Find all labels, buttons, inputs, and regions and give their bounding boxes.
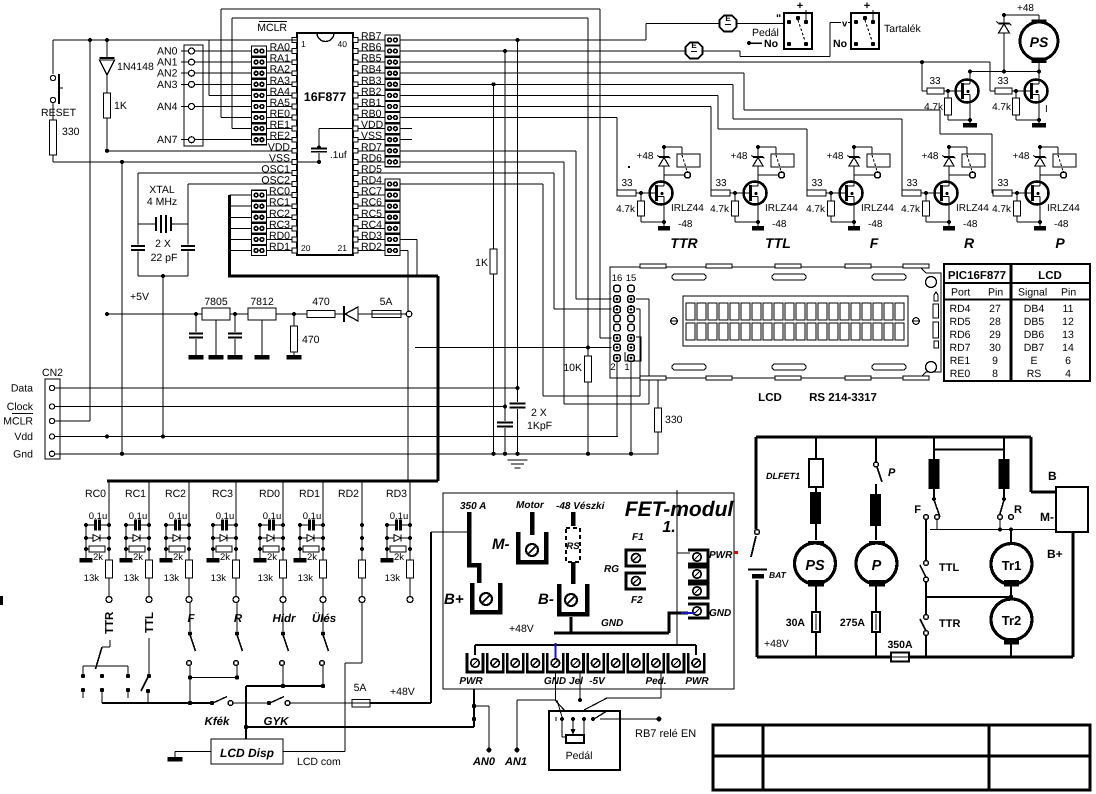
- wire VDD row to chip: [107, 150, 292, 152]
- wire column RD3: [408, 481, 412, 560]
- svg-text:Jel: Jel: [569, 676, 583, 687]
- input column RC1: label: [125, 488, 146, 500]
- svg-text:PWR: PWR: [459, 676, 483, 687]
- svg-text:TTL: TTL: [144, 612, 156, 633]
- svg-text:5A: 5A: [354, 682, 367, 694]
- svg-text:2k: 2k: [220, 552, 230, 563]
- pedal potentiometer: [556, 717, 595, 743]
- resistor 470 (shunt): [287, 314, 320, 360]
- svg-text:RC3: RC3: [212, 488, 233, 500]
- pin AN1: [157, 57, 252, 69]
- svg-text:16F877: 16F877: [304, 90, 346, 104]
- svg-text:Kfék: Kfék: [205, 716, 231, 728]
- svg-text:6: 6: [1065, 355, 1071, 367]
- svg-text:Data: Data: [11, 383, 33, 395]
- switch P (block): [874, 437, 896, 482]
- svg-text:470: 470: [302, 334, 320, 346]
- svg-text:TTR: TTR: [939, 618, 960, 630]
- resistor 2k (RD3): [387, 546, 406, 563]
- wire PWR entry from LCD header area: [676, 490, 678, 553]
- diode (RC0): [86, 535, 109, 542]
- svg-text:MCLR: MCLR: [257, 22, 287, 34]
- svg-text:P: P: [888, 467, 896, 479]
- svg-text:IRLZ44: IRLZ44: [765, 203, 798, 214]
- LCD header row 6 pins: [614, 335, 635, 342]
- svg-text:RD1: RD1: [269, 241, 290, 253]
- wire TTL to Tr junction: [926, 595, 1013, 599]
- input column RD3: label: [386, 488, 407, 500]
- svg-text:DLFET1: DLFET1: [766, 471, 800, 481]
- svg-text:RD0: RD0: [259, 488, 280, 500]
- motor P (block): [856, 541, 897, 611]
- resistor R2 1K (MCLR pull): [104, 93, 127, 153]
- regulator 7805: [202, 296, 230, 320]
- svg-text:P: P: [1055, 235, 1065, 251]
- svg-text:+48: +48: [731, 151, 748, 162]
- resistor 330 (reset): [50, 120, 80, 162]
- resistor 2k (RC3): [213, 546, 232, 563]
- resistor 13k (RD0): [258, 560, 287, 597]
- diode (RC3): [213, 535, 236, 542]
- svg-text:0.1u: 0.1u: [129, 511, 148, 522]
- wire GND terminal to pedal: [556, 672, 563, 717]
- svg-text:TTR: TTR: [670, 235, 698, 251]
- ballast resistor (R): [999, 437, 1010, 497]
- wire RE0 route (top jog): [221, 9, 600, 118]
- resistor 2k (RD1): [300, 546, 319, 563]
- capacitor (7805 in): [189, 314, 204, 360]
- pin AN2: [157, 68, 252, 80]
- wire Clock row: [55, 406, 505, 408]
- junction box B / M- / B+: [1031, 437, 1088, 561]
- switch F (block): [914, 497, 940, 519]
- svg-text:13k: 13k: [298, 573, 314, 584]
- svg-text:33: 33: [621, 178, 633, 189]
- svg-text:IRLZ44: IRLZ44: [861, 203, 894, 214]
- connector AN0-AN7 header: [184, 45, 203, 146]
- svg-text:28: 28: [989, 316, 1001, 328]
- svg-text:PWR: PWR: [709, 550, 733, 561]
- wire RB2 to F cell gate: [400, 95, 807, 193]
- svg-text:AN7: AN7: [157, 134, 178, 146]
- LCD mounting holes: [926, 277, 937, 373]
- svg-text:LCD com: LCD com: [297, 756, 341, 768]
- switch F: [187, 602, 196, 679]
- svg-text:2: 2: [610, 362, 615, 373]
- svg-text:E: E: [1030, 355, 1037, 367]
- resistor 33 (P gate): [993, 178, 1026, 196]
- svg-text:33: 33: [997, 76, 1009, 87]
- svg-text:IRLZ44: IRLZ44: [671, 203, 704, 214]
- FET module box: [443, 493, 734, 689]
- LCD bezel screws: [671, 318, 920, 325]
- svg-text:Pin: Pin: [988, 287, 1003, 299]
- svg-text:Tr1: Tr1: [1002, 558, 1022, 573]
- MOSFET Q PS driver at x=1036: [1025, 80, 1048, 103]
- wire 48V to FET module: [370, 532, 469, 703]
- svg-text:+: +: [797, 0, 803, 12]
- diode D (TTL flyback): [752, 145, 765, 182]
- ground (RC2): [160, 523, 173, 563]
- svg-text:AN3: AN3: [157, 79, 178, 91]
- wire LCD pin1 to Gnd: [630, 362, 632, 454]
- svg-text:33: 33: [715, 178, 727, 189]
- svg-text:RE0: RE0: [950, 368, 971, 380]
- resistor 13k (RD1): [298, 560, 327, 597]
- svg-text:16: 16: [612, 273, 623, 284]
- MOSFET Q R IRLZ44: [935, 182, 990, 215]
- relay K2 Tartalek: [833, 0, 922, 50]
- pin CN2 MCLR: [3, 414, 54, 428]
- resistor 33 (TTL gate): [711, 178, 744, 196]
- wire RB0 to TTR cell gate: [400, 118, 617, 193]
- relay driver cell R: +48 label: [922, 151, 939, 162]
- wire PWR internal rail: [475, 553, 696, 655]
- resistor 4.7k (P gate pulldown): [992, 193, 1040, 222]
- svg-text:RC0: RC0: [85, 488, 106, 500]
- svg-text:4 MHz: 4 MHz: [147, 196, 177, 208]
- capacitor 0.1u (RD3): [387, 511, 410, 531]
- label TTR: [670, 235, 698, 251]
- switch TTL (block): [920, 519, 959, 597]
- resistor 13k (RC2): [164, 560, 193, 597]
- svg-text:5A: 5A: [380, 296, 393, 308]
- wire column RC3: [234, 481, 238, 560]
- diode D PS (flyback): [997, 13, 1012, 72]
- capacitor C2 22pF: [151, 224, 195, 276]
- fuse 350A: [887, 639, 913, 662]
- resistor 13k (RC1): [124, 560, 153, 597]
- svg-text:4.7k: 4.7k: [616, 204, 636, 215]
- svg-text:PWR: PWR: [685, 676, 709, 687]
- svg-text:No: No: [833, 38, 847, 50]
- svg-text:7805: 7805: [204, 296, 228, 308]
- encoder E2: [686, 41, 703, 58]
- diode (RD3): [387, 535, 410, 542]
- resistor 4.7k (PS driver pulldown at x=967): [924, 91, 970, 120]
- svg-text:275A: 275A: [840, 617, 866, 629]
- svg-text:M-: M-: [492, 536, 510, 553]
- relay driver cell F: +48 label: [827, 151, 844, 162]
- wire PWR riser (module to LCD Disp): [246, 689, 476, 727]
- pin AN3: [157, 79, 252, 91]
- ground (TTL source): [752, 205, 787, 231]
- diode D (F flyback): [848, 145, 861, 182]
- resistor 4.7k (TTR gate pulldown): [616, 193, 664, 222]
- wire RB7 to E1: [400, 24, 720, 43]
- terminal RG F2: [604, 564, 646, 606]
- svg-text:DB6: DB6: [1024, 329, 1045, 341]
- svg-text:I: I: [1045, 104, 1048, 115]
- ground (TTR source): [658, 205, 693, 231]
- resistor 13k (RC3): [211, 560, 240, 597]
- svg-text:RD1: RD1: [299, 488, 320, 500]
- terminal RD0: [280, 597, 286, 603]
- svg-text:RD6: RD6: [949, 329, 970, 341]
- svg-text:TTL: TTL: [939, 562, 959, 574]
- svg-text:R: R: [964, 235, 975, 251]
- svg-text:F: F: [914, 504, 921, 516]
- svg-text:MCLR: MCLR: [3, 416, 33, 428]
- svg-text:R: R: [234, 613, 243, 625]
- terminal RC3: [233, 597, 239, 603]
- svg-text:11: 11: [1063, 303, 1074, 315]
- switch Kfek: [205, 697, 269, 729]
- svg-text:RD2: RD2: [361, 241, 382, 253]
- wire RB3 to R cell gate: [400, 82, 902, 193]
- terminal RD2: [359, 597, 365, 603]
- svg-text:2k: 2k: [173, 552, 183, 563]
- stub VSS right: [400, 139, 412, 141]
- svg-text:470: 470: [312, 296, 330, 308]
- fuse 30A: [786, 612, 820, 657]
- terminal B- (module): [538, 584, 587, 614]
- svg-text:2 X: 2 X: [531, 407, 547, 419]
- resistor 33 (TTR gate): [617, 178, 650, 196]
- svg-text:LCD: LCD: [758, 392, 782, 404]
- svg-text:27: 27: [989, 303, 1001, 315]
- svg-text:RS: RS: [566, 541, 580, 552]
- svg-text:+48: +48: [922, 151, 939, 162]
- diode D (P flyback): [1034, 145, 1047, 182]
- label P: [1055, 235, 1065, 251]
- svg-text:R: R: [1014, 504, 1022, 516]
- pin AN0: [157, 46, 252, 58]
- svg-text:+48V: +48V: [390, 686, 415, 698]
- svg-text:21: 21: [338, 243, 348, 253]
- wire RD5 to LCD DB5: [385, 173, 612, 309]
- relay coil (R): [949, 147, 985, 178]
- svg-text:RESET: RESET: [41, 107, 77, 119]
- wire E1 to Pedal relay: [737, 13, 784, 25]
- resistor 33 (PS driver gate at x=1036): [995, 76, 1025, 94]
- svg-text:+48: +48: [827, 151, 844, 162]
- svg-text:+48: +48: [637, 151, 654, 162]
- svg-text:4: 4: [1065, 368, 1071, 380]
- wire AN1: [504, 700, 566, 768]
- LCD right strip pins: [933, 292, 939, 348]
- svg-text:0.1u: 0.1u: [216, 511, 235, 522]
- motor PS (powersteering): [1004, 3, 1058, 72]
- svg-text:IRLZ44: IRLZ44: [956, 203, 989, 214]
- wire column RD2: [360, 481, 364, 560]
- svg-text:Ülés: Ülés: [312, 612, 336, 625]
- svg-text:DB5: DB5: [1024, 316, 1045, 328]
- wire B+ drop: [1072, 532, 1075, 657]
- resistor 13k (RD2): [359, 560, 366, 597]
- label R: [964, 235, 975, 251]
- svg-text:13: 13: [1062, 329, 1074, 341]
- LCD display bezel: [683, 296, 908, 346]
- svg-text:RD4: RD4: [949, 303, 970, 315]
- svg-text:M-: M-: [1040, 510, 1054, 524]
- svg-text:Port: Port: [951, 287, 970, 299]
- capacitor (7812 in): [228, 314, 243, 360]
- resistor 2k (RC0): [86, 546, 105, 563]
- module right strip terminals: [688, 550, 733, 619]
- svg-text:RD3: RD3: [386, 488, 407, 500]
- svg-text:4.7k: 4.7k: [992, 102, 1012, 113]
- wire RD4 to LCD DB4: [400, 184, 640, 396]
- bracket around LCD pins 1-5: [625, 337, 641, 361]
- LCD character cells row 2: [686, 323, 904, 340]
- ground (RD1): [294, 523, 307, 563]
- wire RB6 to E2: [400, 49, 686, 53]
- fuse 5A (supply): [372, 296, 412, 318]
- wire +5V rail: [105, 291, 307, 316]
- wire RB4 to P cell gate: [400, 73, 993, 193]
- resistor 2k (RC2): [166, 546, 185, 563]
- chip pin stubs right: [353, 38, 358, 253]
- wire switch common bus: [102, 702, 212, 704]
- capacitor 0.1u (RC2): [166, 511, 189, 531]
- svg-text:LCD Disp: LCD Disp: [220, 746, 274, 760]
- svg-text:1: 1: [624, 362, 629, 373]
- svg-text:12: 12: [1062, 316, 1074, 328]
- svg-text:B+: B+: [444, 591, 464, 608]
- svg-text:Pedál: Pedál: [566, 750, 593, 762]
- resistor 1K (RB3 pulldown): [475, 84, 497, 455]
- wire column RC0: [107, 481, 111, 560]
- svg-text:B+: B+: [1047, 547, 1063, 561]
- bus entries RC0-RD1: [230, 195, 252, 250]
- svg-text:v: v: [842, 19, 848, 30]
- capacitor 0.1u (RC0): [86, 511, 109, 531]
- left pin labels: [257, 22, 290, 254]
- svg-text:-48: -48: [678, 219, 693, 230]
- fuse-resistor DLFET1: [766, 437, 823, 540]
- resistor 4.7k (R gate pulldown): [901, 193, 949, 222]
- input column RD2: label: [338, 488, 359, 500]
- title block table: [713, 725, 1090, 790]
- svg-text:-5V: -5V: [589, 676, 606, 687]
- svg-text:F1: F1: [632, 532, 644, 543]
- ground (PS driver source at x=967): [963, 103, 977, 128]
- svg-text:13k: 13k: [124, 573, 140, 584]
- svg-text:-48: -48: [963, 219, 978, 230]
- wire RD2 right to bus: [400, 251, 408, 481]
- svg-text:Clock: Clock: [7, 401, 34, 413]
- svg-text:22 pF: 22 pF: [151, 252, 178, 264]
- motor Tr1: [991, 530, 1032, 600]
- terminal -48 Veszki / RS: [556, 501, 605, 584]
- svg-text:RD7: RD7: [949, 342, 970, 354]
- resistor 330 (backlight): [645, 380, 683, 454]
- svg-text:No: No: [764, 38, 778, 50]
- terminal M- (module): [492, 500, 546, 562]
- terminal RD3: [407, 597, 413, 603]
- wire drain up at x=967: [968, 70, 972, 80]
- terminal RG F1: [626, 532, 646, 566]
- svg-text:2k: 2k: [93, 552, 103, 563]
- ground (RD0): [254, 523, 267, 563]
- diode (RC2): [166, 535, 189, 542]
- relay coil (P): [1040, 147, 1076, 178]
- ballast resistor (P): [870, 484, 881, 540]
- stub VDD right: [400, 128, 412, 130]
- svg-text:-48: -48: [868, 219, 883, 230]
- svg-text:RS 214-3317: RS 214-3317: [809, 392, 877, 404]
- wire MCLR row: [55, 40, 90, 421]
- diode D (TTR flyback): [658, 145, 671, 182]
- header-to-chip wires left: [267, 51, 293, 250]
- svg-text:4.7k: 4.7k: [992, 204, 1012, 215]
- red mark: [734, 551, 738, 554]
- pin CN2 Vdd: [14, 431, 54, 443]
- wire RE1 route (top jog): [232, 18, 588, 129]
- MOSFET Q PS driver at x=967: [956, 80, 979, 103]
- svg-text:RG: RG: [604, 564, 619, 575]
- MOSFET Q TTR IRLZ44: [650, 182, 705, 215]
- relay coil (TTL): [758, 147, 794, 178]
- svg-text:IRLZ44: IRLZ44: [1047, 203, 1080, 214]
- LCD header row 8 pins: [614, 355, 635, 362]
- svg-text:2k: 2k: [394, 552, 404, 563]
- svg-text:GND: GND: [709, 608, 731, 619]
- svg-text:Signal: Signal: [1018, 287, 1047, 299]
- switch TTR (block): [920, 597, 960, 657]
- resistor 470 (series): [307, 296, 344, 318]
- diode (RC1): [126, 535, 149, 542]
- resistor 4.7k (TTL gate pulldown): [710, 193, 758, 222]
- wire column RD0: [281, 481, 285, 560]
- svg-text:0.1u: 0.1u: [89, 511, 108, 522]
- relay driver cell TTL: +48 label: [731, 151, 748, 162]
- svg-text:F: F: [187, 613, 195, 625]
- svg-text:0.1u: 0.1u: [390, 511, 409, 522]
- chip pin stubs left: [292, 38, 297, 253]
- svg-text:4.7k: 4.7k: [806, 204, 826, 215]
- svg-text:8: 8: [992, 368, 998, 380]
- wire PS- common: [970, 70, 1041, 74]
- resistor 13k (RD3): [385, 560, 414, 597]
- input column RD1: label: [299, 488, 320, 500]
- label TTL: [765, 235, 791, 251]
- svg-text:CN2: CN2: [42, 367, 63, 379]
- fuse 275A: [840, 612, 880, 657]
- PIC microcontroller U1 16F877: [297, 33, 353, 255]
- ground (RD3): [381, 523, 394, 563]
- ground (RC1): [120, 523, 133, 563]
- wire RA4 stub: [209, 40, 252, 95]
- ground (F source): [848, 205, 883, 231]
- wire Ped terminal to pedal switch: [584, 672, 661, 710]
- LCD header row 5 pins: [614, 324, 635, 331]
- svg-text:+48: +48: [1017, 3, 1034, 14]
- module bottom terminal block: [467, 653, 704, 672]
- bus trunk (RC/RD port bus): [107, 195, 438, 481]
- wire column RC2: [187, 481, 191, 560]
- wire drain up at x=1036: [1037, 70, 1041, 80]
- svg-text:RD2: RD2: [338, 488, 359, 500]
- svg-text:1N4148: 1N4148: [117, 61, 154, 73]
- svg-text:33: 33: [929, 76, 941, 87]
- bus entry RD3 right: [400, 239, 417, 276]
- terminal RD1: [320, 597, 326, 603]
- svg-text:RD5: RD5: [949, 316, 970, 328]
- terminal RC0: [106, 597, 112, 603]
- wire AN0: [472, 706, 496, 768]
- wire VSS row to chip: [53, 160, 292, 456]
- switch pedal (RB7): [594, 712, 696, 741]
- LCD header row 4 pins: [614, 315, 635, 322]
- svg-text:+5V: +5V: [130, 291, 149, 303]
- wire Gnd row: [55, 452, 658, 456]
- relay coil (F): [854, 147, 890, 178]
- svg-text:+48V: +48V: [764, 638, 789, 650]
- wire LCD com from RD2: [283, 602, 362, 768]
- relay driver cell TTR: +48 label: [637, 151, 654, 162]
